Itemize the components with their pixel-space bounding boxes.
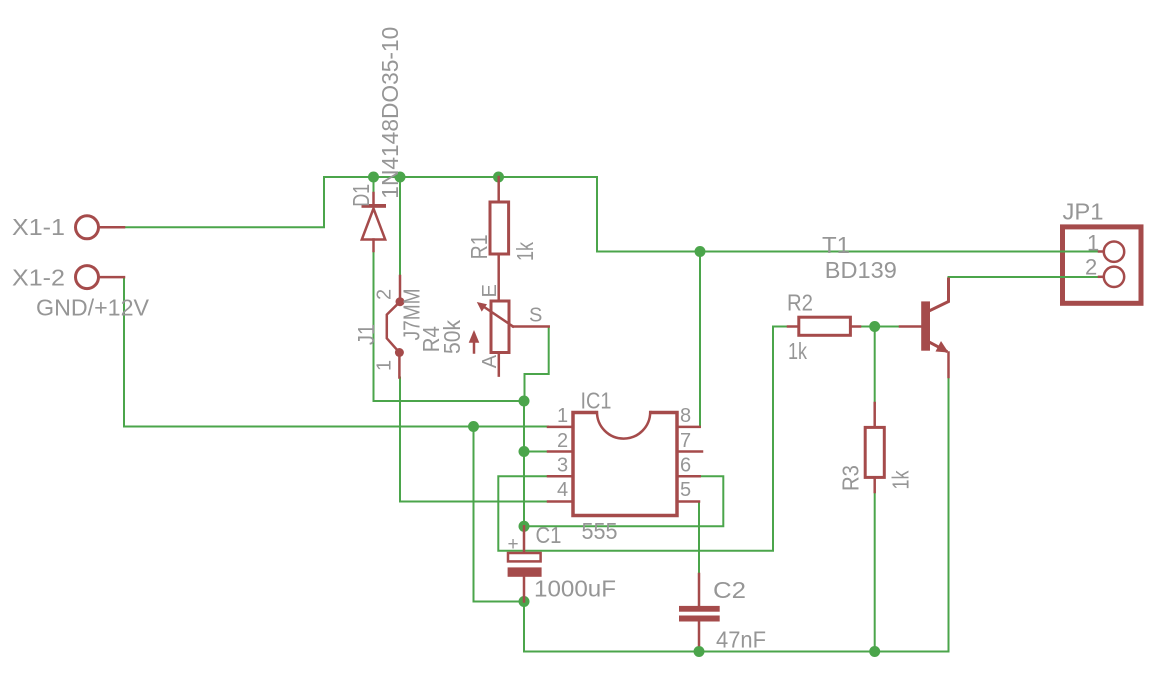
wire C2 bottom to rail <box>698 641 700 652</box>
junction top rail at J1 <box>395 172 406 183</box>
svg-text:555: 555 <box>582 518 618 544</box>
transistor T1 BD139 <box>900 279 949 377</box>
wire J1 bottom to IC pin 4 <box>400 378 548 502</box>
connector JP1 pins <box>1099 242 1124 287</box>
connector pin X1-2 <box>76 266 99 289</box>
svg-text:6: 6 <box>680 455 691 477</box>
svg-text:T1: T1 <box>822 232 850 258</box>
svg-text:1: 1 <box>557 405 568 427</box>
svg-text:47nF: 47nF <box>716 627 766 653</box>
svg-text:7: 7 <box>680 430 691 452</box>
wire IC pin 6 wrap to C1 node <box>524 476 723 526</box>
svg-text:8: 8 <box>680 405 691 427</box>
wire J1 top <box>399 177 401 276</box>
svg-text:1k: 1k <box>888 470 914 489</box>
svg-text:2: 2 <box>1085 255 1097 280</box>
IC1 pin 5 stub <box>677 500 699 503</box>
svg-text:1k: 1k <box>512 242 538 261</box>
svg-text:4: 4 <box>557 479 568 501</box>
svg-text:X1-1: X1-1 <box>12 214 65 240</box>
svg-text:50k: 50k <box>439 320 465 354</box>
junction top rail at D1 <box>368 172 379 183</box>
junction node D1/S/pin2 column <box>519 396 530 407</box>
IC1 pin 3 stub <box>548 475 573 478</box>
IC1 pin 4 stub <box>548 500 573 503</box>
svg-text:1: 1 <box>374 360 396 371</box>
wire IC pin 3 output to R2 <box>498 327 788 551</box>
svg-text:5: 5 <box>680 479 691 501</box>
capacitor C1 electrolytic <box>508 526 542 601</box>
svg-text:S: S <box>529 305 542 327</box>
svg-text:GND/+12V: GND/+12V <box>36 295 150 321</box>
svg-text:D1: D1 <box>348 184 374 207</box>
svg-text:3: 3 <box>557 455 568 477</box>
wire D1 top <box>373 177 375 193</box>
junction base node <box>869 321 880 332</box>
capacitor C2 <box>679 574 720 645</box>
IC1 pin 7 stub <box>677 450 702 453</box>
svg-text:1k: 1k <box>788 338 807 364</box>
IC1 pin 8 stub <box>677 426 700 429</box>
connector JP1 box <box>1063 227 1142 303</box>
svg-text:A: A <box>479 354 501 368</box>
wire IC pin 5 to C2 <box>698 502 700 575</box>
junction GND at pin1 wire <box>468 421 479 432</box>
svg-text:J1: J1 <box>353 324 379 345</box>
wire R3 bottom to rail <box>874 492 876 652</box>
wire VCC down to IC pin 8 <box>699 252 701 427</box>
svg-text:IC1: IC1 <box>581 388 612 414</box>
wire collector to JP1 pin 2 <box>949 276 1104 278</box>
svg-text:R1: R1 <box>466 234 492 259</box>
svg-text:C2: C2 <box>713 577 746 603</box>
wire GND column to C1 minus <box>474 427 525 602</box>
svg-text:JP1: JP1 <box>1063 199 1104 225</box>
junction R3 on rail <box>869 646 880 657</box>
svg-text:C1: C1 <box>536 522 562 548</box>
wire base node down to R3 <box>874 327 876 404</box>
svg-text:R3: R3 <box>838 465 864 491</box>
IC1 pin 1 stub <box>548 426 573 429</box>
svg-text:1N4148DO35-10: 1N4148DO35-10 <box>377 27 403 199</box>
svg-text:+: + <box>508 534 519 555</box>
svg-text:X1-2: X1-2 <box>12 265 65 291</box>
wire GND rail <box>524 602 949 652</box>
IC1 pin 6 stub <box>677 475 700 478</box>
wire X1-2 GND down and right to IC pin 1 <box>124 277 548 426</box>
connector pin X1-1 <box>76 216 99 239</box>
svg-text:2: 2 <box>557 430 568 452</box>
wire node column to C1 <box>523 401 525 526</box>
resistor R1 <box>490 177 509 301</box>
IC1 pin 2 stub <box>548 450 573 453</box>
IC1 555 body <box>573 409 677 516</box>
resistor R3 <box>865 403 884 492</box>
jumper J1 <box>387 276 405 378</box>
potentiometer R4 <box>469 301 549 376</box>
junction top rail at R1 <box>493 172 504 183</box>
resistor R2 <box>788 317 860 335</box>
svg-text:BD139: BD139 <box>825 257 897 283</box>
junction C1 plus <box>519 521 530 532</box>
diode D1 <box>362 193 387 251</box>
wire R4 wiper S staircase <box>525 327 549 402</box>
wire X1-1 to top rail <box>124 177 1103 252</box>
wire R2 to base node <box>860 326 900 328</box>
svg-text:1: 1 <box>1087 231 1099 256</box>
svg-text:R2: R2 <box>787 290 813 316</box>
wire D1 bottom to node <box>374 251 525 401</box>
svg-text:2: 2 <box>374 289 396 300</box>
svg-text:1000uF: 1000uF <box>534 576 616 602</box>
junction C2 on rail <box>694 646 705 657</box>
svg-text:E: E <box>479 284 501 297</box>
wire emitter down to rail <box>948 377 950 652</box>
junction VCC at x=700 <box>695 246 706 257</box>
wire to IC pin 2 <box>524 451 548 453</box>
junction C1 minus <box>519 596 530 607</box>
junction pin2 <box>519 446 530 457</box>
